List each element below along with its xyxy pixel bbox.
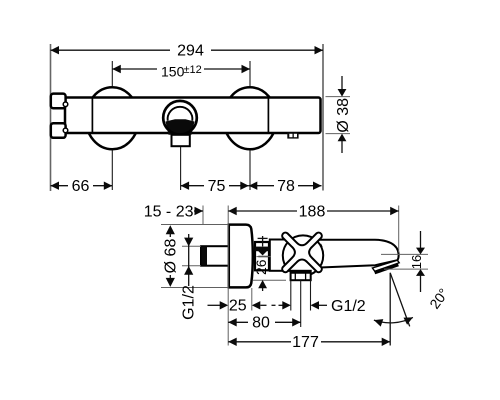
angle arc xyxy=(374,317,413,322)
svg-text:78: 78 xyxy=(277,178,295,195)
ext line outlet top xyxy=(381,253,428,255)
ext line wall face xyxy=(227,206,229,346)
svg-text:294: 294 xyxy=(177,43,204,60)
nipple thread black xyxy=(202,247,208,266)
hex nut xyxy=(291,271,311,280)
valve pipe segment xyxy=(270,240,307,271)
svg-text:177: 177 xyxy=(292,334,319,351)
clip below bar xyxy=(287,132,298,138)
right extension line xyxy=(322,44,324,191)
centerline right circle bottom xyxy=(249,150,251,190)
svg-text:±12: ±12 xyxy=(184,64,202,76)
joint line left xyxy=(91,98,93,134)
dim 25 + G1/2 right xyxy=(208,304,221,306)
supply pipe centerline xyxy=(300,280,302,327)
ext line wall anchor xyxy=(202,206,204,225)
left escutcheon ellipse xyxy=(86,87,139,149)
dim 75 xyxy=(181,185,204,187)
dim 16 xyxy=(420,231,422,249)
ext line plate front xyxy=(251,288,253,311)
screw head top xyxy=(63,102,68,107)
cross handle arm 1 xyxy=(282,233,322,273)
dim 26 xyxy=(258,237,268,239)
nipple xyxy=(201,246,229,266)
handle ring black face xyxy=(166,119,195,135)
svg-text:Ø 38: Ø 38 xyxy=(335,98,352,133)
bar body xyxy=(65,98,321,134)
angle reference vertical xyxy=(389,273,391,346)
angle slanted line xyxy=(390,273,410,327)
svg-text:150: 150 xyxy=(161,64,185,80)
svg-text:G1/2: G1/2 xyxy=(331,298,366,315)
ext line nut bottom xyxy=(253,279,287,281)
wall bracket nut top xyxy=(51,94,66,109)
dim Ø38 xyxy=(326,96,351,98)
band arrow xyxy=(258,251,267,255)
valve sleeve xyxy=(255,242,269,270)
handle hidden arc xyxy=(317,239,324,255)
supply pipe wall right xyxy=(310,280,312,310)
handle base circle xyxy=(283,235,323,275)
ext line plate top xyxy=(161,224,229,226)
svg-text:15 - 23: 15 - 23 xyxy=(144,204,194,221)
svg-text:25: 25 xyxy=(229,298,247,315)
svg-text:66: 66 xyxy=(72,178,90,195)
centerline right circle top xyxy=(249,61,251,86)
dim G1/2 left xyxy=(188,234,190,286)
svg-text:188: 188 xyxy=(299,204,326,221)
svg-text:G1/2: G1/2 xyxy=(181,285,198,320)
dim 294 xyxy=(51,49,171,51)
wall line xyxy=(50,44,52,191)
svg-text:75: 75 xyxy=(208,178,226,195)
dim Ø68 xyxy=(166,225,175,234)
dim 66 xyxy=(51,185,69,187)
dim 78 xyxy=(249,185,274,187)
svg-text:26: 26 xyxy=(253,259,269,275)
supply pipe wall left xyxy=(290,280,292,310)
joint line right xyxy=(267,98,269,134)
ext tick sleeve xyxy=(257,256,271,258)
ext line nipple bottom xyxy=(182,265,201,267)
aerator band xyxy=(372,260,399,271)
svg-text:Ø 68: Ø 68 xyxy=(163,239,180,274)
wall bracket nut bottom xyxy=(51,123,66,138)
ext line outlet bottom xyxy=(384,268,428,270)
dim 177 xyxy=(228,338,237,346)
svg-text:80: 80 xyxy=(252,315,270,332)
handle ring outer xyxy=(163,101,197,135)
aerator face xyxy=(375,265,399,273)
sleeve black band xyxy=(255,247,270,252)
stem centerline xyxy=(180,147,182,190)
dim 188 xyxy=(228,207,237,215)
wall plate xyxy=(229,225,253,288)
dim 80 xyxy=(228,318,237,326)
sleeve tick xyxy=(258,256,268,258)
svg-text:16: 16 xyxy=(409,255,424,269)
ext line spout end xyxy=(398,206,400,253)
centerline left circle bottom xyxy=(111,150,113,190)
ext line plate bottom xyxy=(161,287,229,289)
handle ring inner xyxy=(168,107,193,121)
ext line nipple top xyxy=(182,245,201,247)
handle stem xyxy=(172,135,190,146)
centerline left circle top xyxy=(111,61,113,86)
right escutcheon ellipse xyxy=(223,87,276,149)
arc arrow right xyxy=(404,317,413,324)
arc arrow left xyxy=(374,319,383,327)
screw head bottom xyxy=(63,128,68,133)
dim 150±12 xyxy=(112,68,157,70)
spout pipe xyxy=(303,240,399,268)
